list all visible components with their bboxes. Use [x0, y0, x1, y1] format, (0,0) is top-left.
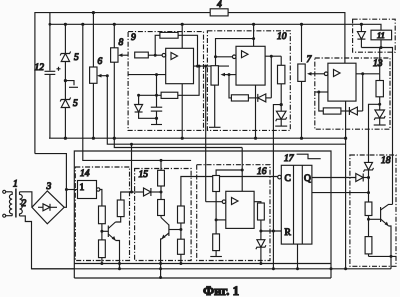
node bus24 b — [81, 23, 84, 26]
wiper R6 — [101, 75, 108, 77]
wiper R7 — [311, 73, 327, 75]
svg-text:11: 11 — [377, 30, 385, 40]
opamp10 bottom — [255, 85, 257, 138]
op-amp U13 — [328, 63, 356, 101]
svg-text:4: 4 — [217, 0, 222, 10]
wire op10 top — [253, 24, 255, 46]
wire from 144 — [131, 144, 133, 192]
zener VD18a — [364, 162, 374, 202]
input2 13 — [315, 91, 328, 93]
svg-text:6: 6 — [98, 57, 103, 67]
diode VD18b — [356, 174, 369, 182]
svg-text:12: 12 — [35, 63, 45, 73]
resistor R14a — [100, 190, 102, 207]
svg-text:13: 13 — [373, 59, 383, 69]
opamp9 bottom — [181, 84, 183, 139]
transistor VT15 — [161, 216, 181, 278]
svg-text:3: 3 — [46, 182, 52, 192]
op-amp U16 — [226, 191, 254, 228]
svg-text:5: 5 — [73, 99, 78, 109]
bottom rails — [74, 263, 331, 265]
resistor R15d — [178, 239, 185, 254]
block 15 box — [135, 169, 192, 261]
big solid box — [74, 151, 331, 278]
wire R input — [261, 230, 281, 232]
output 9 — [194, 65, 230, 67]
resistor R14b — [99, 240, 106, 258]
resistor R9a — [135, 52, 149, 58]
relay K11 — [371, 30, 392, 40]
zener VD16 — [256, 240, 266, 264]
wire secondary top — [20, 192, 32, 208]
block 11 box — [353, 19, 396, 52]
svg-text:C: C — [285, 174, 291, 184]
resistor R16c — [258, 203, 265, 220]
wire wiper6 down — [107, 76, 345, 145]
resistor R10b — [280, 56, 282, 65]
svg-text:2: 2 — [22, 199, 27, 209]
wire A 147 — [114, 138, 242, 147]
svg-text:R: R — [285, 228, 292, 238]
resistor 4 — [210, 9, 228, 16]
zener VD5a — [60, 24, 79, 80]
svg-text:18: 18 — [381, 156, 391, 166]
wiper R8 — [122, 54, 129, 56]
capacitor C12 — [45, 70, 56, 72]
resistor R13 — [376, 81, 383, 97]
diode VD9 — [135, 95, 157, 118]
potentiometer R7 — [298, 24, 313, 138]
potentiometer R10a — [211, 66, 218, 85]
svg-text:17: 17 — [284, 154, 295, 164]
resistor R15c — [178, 206, 185, 223]
resistor R18a — [365, 202, 372, 216]
feedback 13 — [319, 92, 324, 111]
wire bridge right up — [35, 154, 67, 208]
svg-text:15: 15 — [139, 170, 149, 180]
op-amp U10 — [236, 46, 265, 85]
block 10 box — [207, 31, 290, 131]
resistor R14c — [117, 200, 124, 217]
node zener mid — [64, 79, 67, 82]
svg-text:1: 1 — [13, 180, 18, 190]
ground 10 — [214, 85, 216, 127]
svg-text:1: 1 — [80, 183, 85, 193]
wire C input — [181, 177, 278, 207]
wire bus 138 — [49, 137, 345, 139]
wire cap12 drop — [49, 13, 51, 71]
svg-text:5: 5 — [74, 53, 79, 63]
zener VD10b — [275, 111, 287, 126]
feedback R9b — [155, 35, 160, 55]
clock symbol — [297, 154, 321, 159]
diode VD11 — [357, 24, 365, 47]
block 16 box — [197, 165, 270, 261]
wire supply 160 — [83, 24, 191, 160]
svg-text:Фиг. 1: Фиг. 1 — [203, 283, 239, 297]
output 10 — [265, 55, 281, 57]
block 9 box — [128, 32, 203, 131]
resistor R15a — [160, 160, 162, 170]
op-amp U9 — [166, 48, 194, 83]
zener VD5b — [60, 81, 78, 139]
node top border — [92, 11, 95, 14]
block 18 box — [350, 155, 396, 266]
node bus24 c — [113, 23, 116, 26]
ground sym 9 — [151, 124, 162, 126]
resistor R16a — [213, 176, 220, 192]
node bus24 a — [64, 23, 67, 26]
wire into 16 — [241, 148, 243, 192]
diode VD15 — [132, 188, 162, 196]
potentiometer R8 — [111, 24, 124, 138]
FF lower wire — [312, 192, 369, 194]
resistor R9c — [156, 75, 158, 96]
wire interblock down — [205, 66, 207, 202]
feedback chain 10 — [229, 75, 231, 98]
bottom wire 18 — [369, 255, 396, 257]
svg-text:10: 10 — [277, 32, 287, 42]
transistor VT18 — [369, 204, 393, 256]
zener VD13b — [374, 110, 386, 125]
diode VD13 — [349, 74, 362, 115]
resistor R6 — [90, 13, 103, 139]
resistor R18b — [365, 237, 372, 254]
svg-text:Q: Q — [304, 174, 311, 184]
wire secondary bottom — [20, 216, 75, 269]
wire relay bottom — [361, 48, 392, 205]
resistor R15b — [158, 200, 165, 216]
bridge VD3 — [32, 182, 64, 224]
svg-text:14: 14 — [80, 169, 90, 179]
diode VD10 — [258, 94, 272, 102]
gate input wire — [66, 189, 77, 191]
node bus24 e — [252, 23, 255, 26]
wire bus 24 — [50, 24, 381, 30]
Q output wire — [312, 177, 356, 179]
pulse symbol — [65, 81, 74, 86]
output 13 — [356, 73, 380, 75]
node bus24 f — [300, 23, 303, 26]
wire 13 to 18 — [369, 104, 380, 162]
capacitor C9 — [151, 95, 162, 124]
block 13 box — [315, 58, 390, 129]
wire zener10 node to R17 — [273, 105, 281, 269]
transistor VT14 — [102, 217, 121, 269]
transformer T1 — [3, 180, 27, 218]
gate D14 — [78, 181, 97, 199]
wire top border — [35, 13, 210, 154]
svg-text:9: 9 — [131, 33, 136, 43]
node bus24 d — [181, 23, 184, 26]
svg-text:8: 8 — [119, 38, 124, 48]
output 16 — [254, 202, 261, 203]
FF bottom wire — [297, 244, 299, 269]
node bus24 g — [360, 23, 363, 26]
opamp9 top power — [181, 24, 183, 48]
block 14 box — [75, 167, 129, 261]
resistor R16b — [213, 234, 220, 251]
svg-text:16: 16 — [257, 167, 267, 177]
opamp13 bottom — [345, 101, 347, 269]
input2 — [128, 74, 166, 76]
